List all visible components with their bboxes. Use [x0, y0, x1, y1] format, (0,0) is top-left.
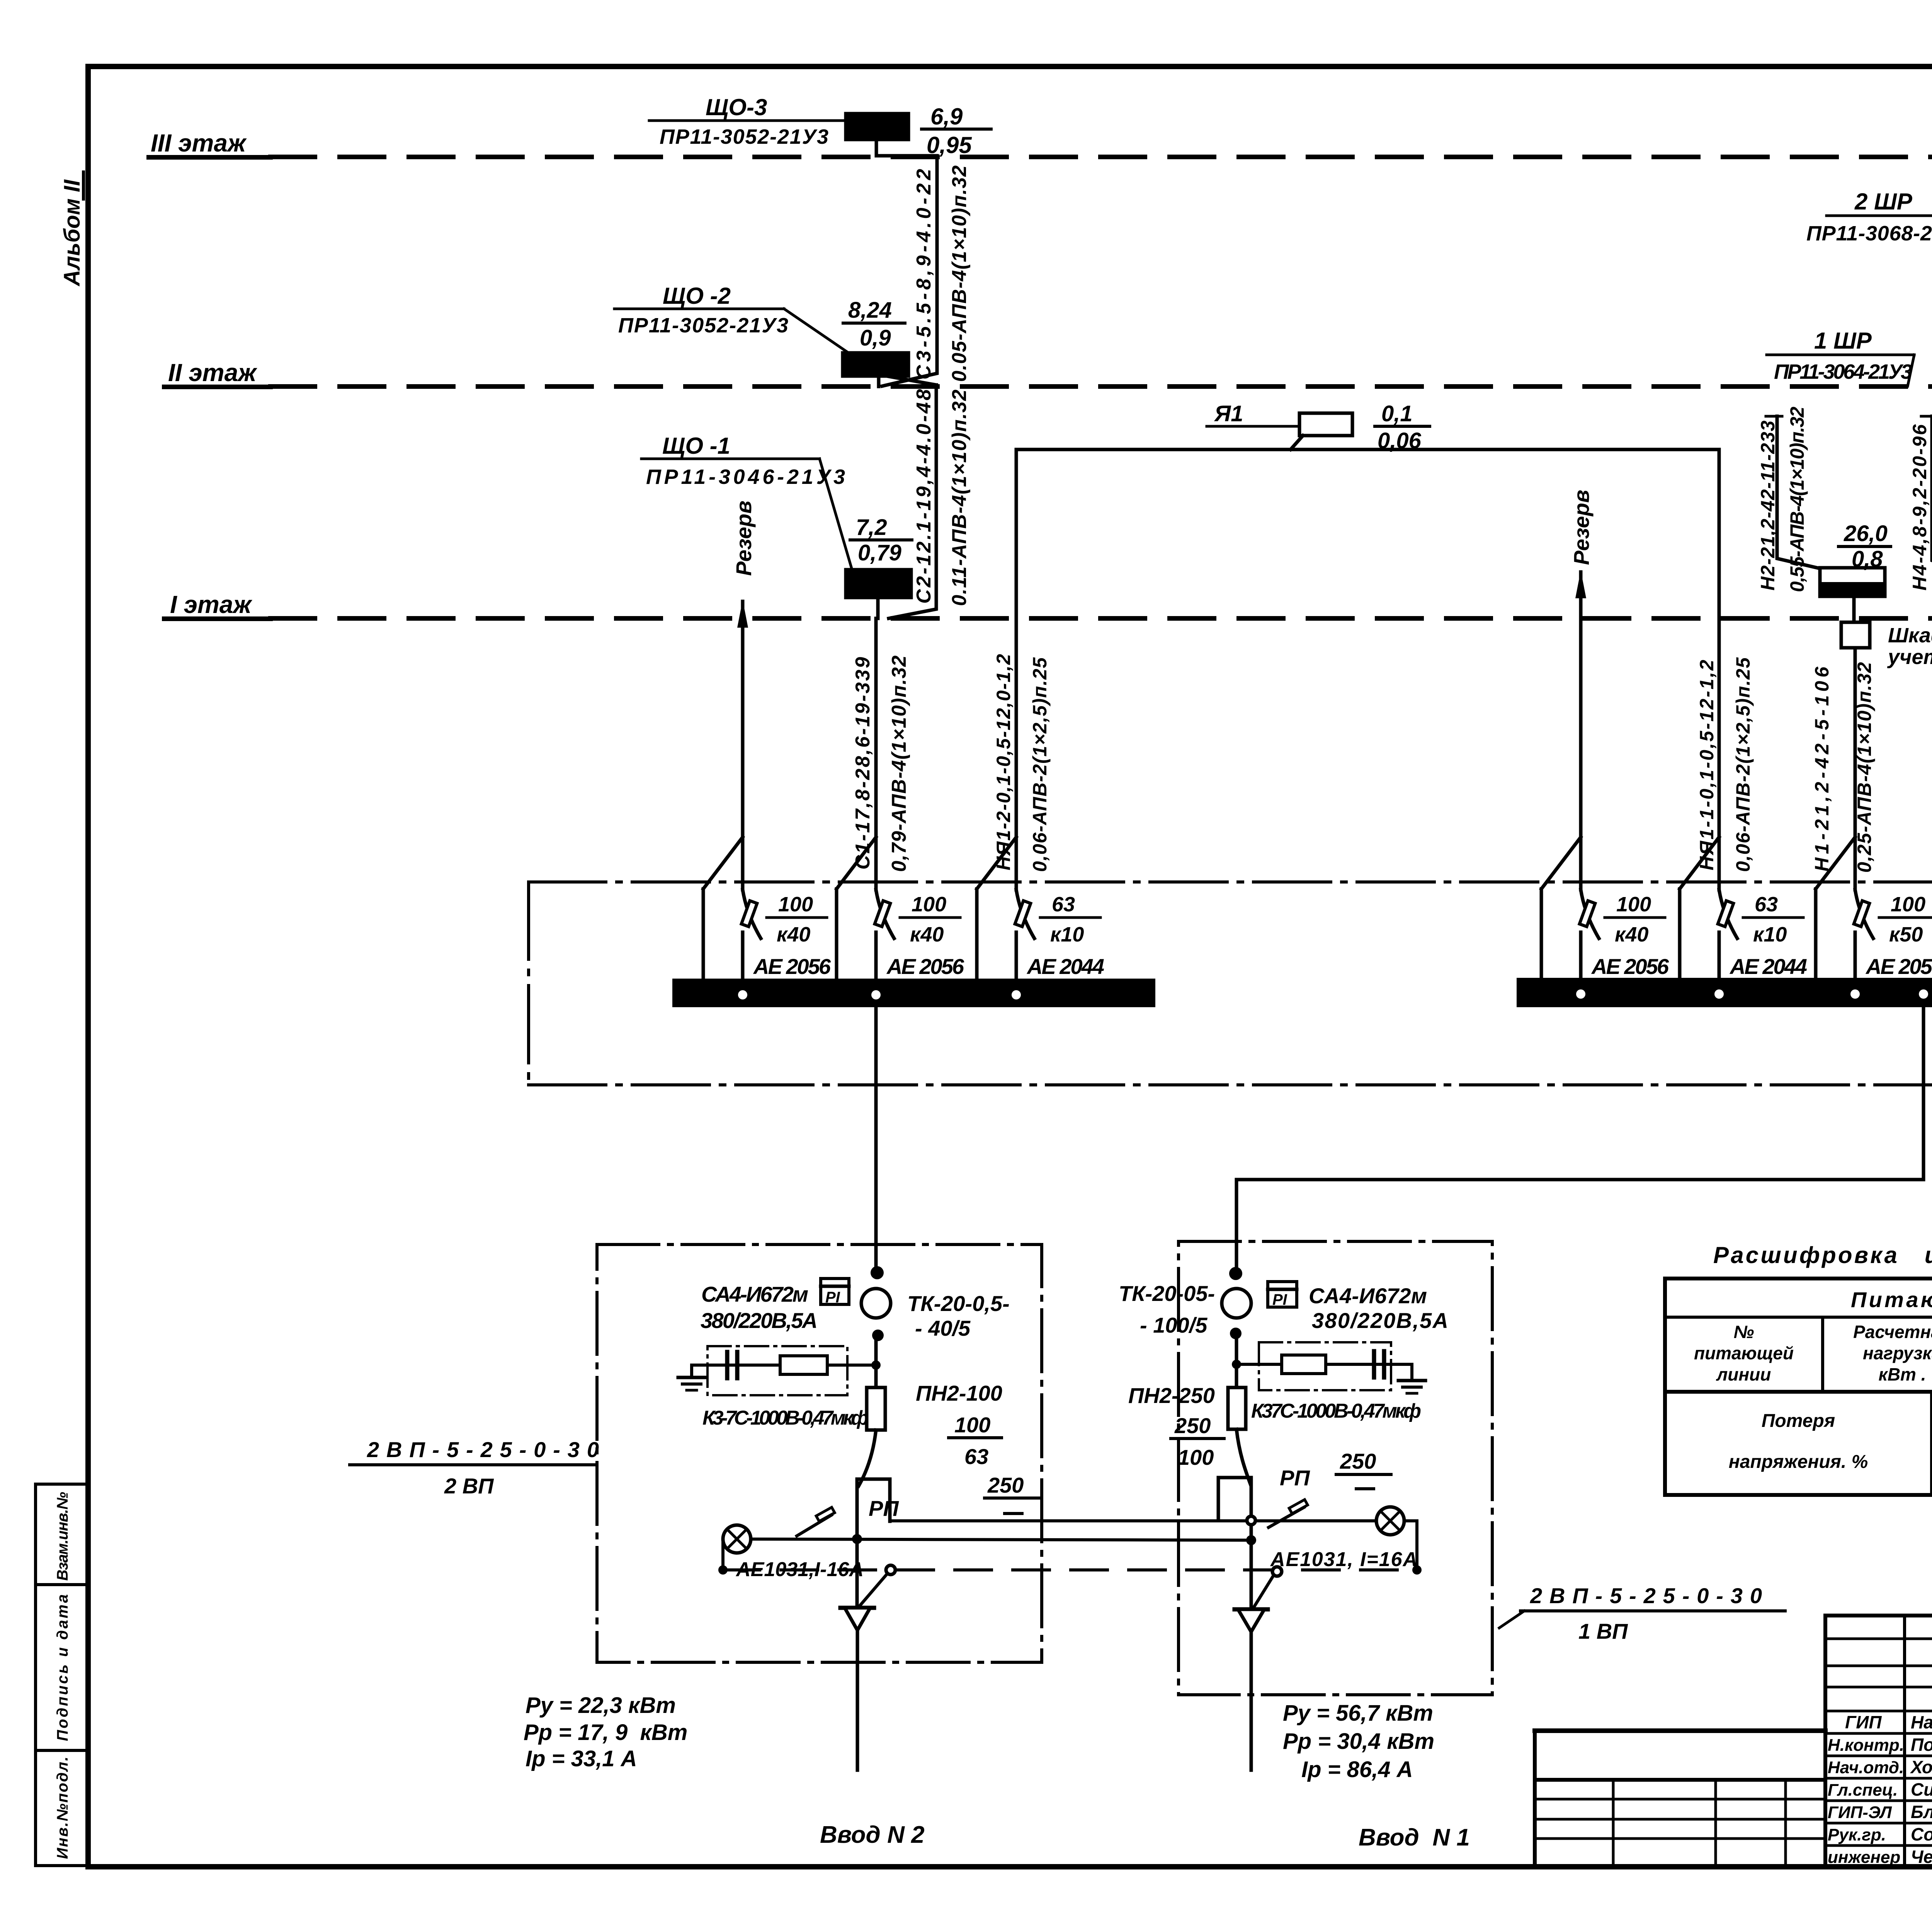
- svg-text:0,79: 0,79: [858, 540, 901, 565]
- junction box Ya1: [1299, 413, 1352, 436]
- svg-text:Сорокина: Сорокина: [1911, 1824, 1932, 1844]
- svg-text:Черкасова: Черкасова: [1911, 1847, 1932, 1867]
- svg-text:ПН2-250: ПН2-250: [1128, 1383, 1215, 1408]
- svg-text:Попова: Попова: [1911, 1735, 1932, 1755]
- busbar right: [1517, 978, 1932, 1007]
- wire SCHO-2 stub: [877, 376, 881, 386]
- svg-text:Резерв: Резерв: [731, 501, 756, 576]
- svg-text:250: 250: [1174, 1413, 1211, 1438]
- svg-text:ТК-20-0,5-: ТК-20-0,5-: [907, 1291, 1010, 1316]
- wire cap branch: [692, 1364, 876, 1367]
- svg-text:Ввод N 1: Ввод N 1: [1359, 1824, 1470, 1851]
- svg-text:Шкаф: Шкаф: [1888, 624, 1932, 647]
- svg-text:линии: линии: [1716, 1364, 1771, 1384]
- meter icon PI: [1268, 1282, 1297, 1307]
- svg-text:100: 100: [778, 893, 813, 916]
- svg-text:СА4-И672м: СА4-И672м: [1309, 1284, 1427, 1308]
- fuse PN2-250: [1228, 1388, 1246, 1429]
- svg-text:Подпись и дата: Подпись и дата: [54, 1594, 71, 1741]
- decode table frame: [1665, 1279, 1932, 1495]
- svg-text:Н.контр.: Н.контр.: [1828, 1736, 1904, 1755]
- breaker AE 2056 100/k40: [1541, 837, 1669, 981]
- svg-text:Я1: Я1: [1214, 401, 1243, 426]
- svg-text:100: 100: [1891, 893, 1925, 916]
- switch AE1031 input2: [797, 1515, 832, 1536]
- wire riser III-II: [882, 156, 937, 386]
- svg-text:ЩО -1: ЩО -1: [662, 433, 730, 459]
- svg-text:№: №: [1734, 1322, 1754, 1342]
- svg-text:PI: PI: [825, 1289, 840, 1306]
- svg-text:Назарова: Назарова: [1911, 1712, 1932, 1732]
- svg-text:К37С-1000В-0,47мкф: К37С-1000В-0,47мкф: [1251, 1400, 1421, 1422]
- floor II line: [270, 384, 1932, 389]
- svg-text:С1-17,8-28,6-19-339: С1-17,8-28,6-19-339: [852, 657, 874, 870]
- svg-text:к10: к10: [1753, 923, 1787, 946]
- busbar left: [672, 979, 1155, 1007]
- svg-text:Ру = 56,7 кВт: Ру = 56,7 кВт: [1283, 1701, 1433, 1726]
- wire main below RP: [855, 1521, 859, 1608]
- svg-text:2 ВП: 2 ВП: [444, 1474, 494, 1498]
- svg-text:Н4-4,8-9,2-20-96: Н4-4,8-9,2-20-96: [1909, 424, 1930, 591]
- svg-text:ГИП: ГИП: [1845, 1712, 1882, 1732]
- ground: [690, 1365, 693, 1377]
- panel SCHO-3: [846, 114, 908, 140]
- svg-text:Ру = 22,3 кВт: Ру = 22,3 кВт: [526, 1693, 676, 1718]
- breaker AE 2056 100/k40: [703, 837, 831, 982]
- wire riser II-I: [889, 385, 936, 618]
- svg-text:Нач.отд.: Нач.отд.: [1828, 1758, 1904, 1777]
- wire lamp line B: [723, 1539, 1251, 1540]
- svg-text:АЕ 2056: АЕ 2056: [1591, 954, 1669, 979]
- svg-text:Iр = 33,1 А: Iр = 33,1 А: [526, 1746, 637, 1771]
- node dot: [871, 1266, 884, 1279]
- svg-text:250: 250: [987, 1473, 1024, 1497]
- svg-text:питающей: питающей: [1694, 1343, 1794, 1363]
- svg-text:100: 100: [954, 1413, 990, 1437]
- svg-text:Резерв: Резерв: [1569, 490, 1594, 565]
- metering box input1: [1179, 1241, 1492, 1695]
- dash-dot box around cap: [1259, 1342, 1391, 1390]
- wire SCHO-1 down to breaker: [874, 618, 878, 839]
- svg-text:Хомяк: Хомяк: [1910, 1757, 1932, 1777]
- capacitor: [725, 1352, 730, 1378]
- svg-text:инженер: инженер: [1828, 1848, 1900, 1867]
- breaker AE 2044 63/k10: [1680, 837, 1807, 981]
- breaker AE 2044 63/k10: [977, 837, 1104, 982]
- svg-text:напряжения. %: напряжения. %: [1729, 1452, 1868, 1472]
- svg-text:Расшифровка цифровых и букве: Расшифровка цифровых и буквенных обознач…: [1713, 1242, 1932, 1268]
- svg-text:ЩО -2: ЩО -2: [663, 283, 731, 309]
- svg-text:100: 100: [1616, 893, 1651, 916]
- svg-text:к10: к10: [1050, 923, 1084, 946]
- svg-text:- 40/5: - 40/5: [915, 1316, 971, 1340]
- floor I line: [270, 616, 1932, 621]
- svg-text:Iр = 86,4 А: Iр = 86,4 А: [1301, 1757, 1413, 1782]
- svg-text:нагрузка: нагрузка: [1863, 1343, 1932, 1363]
- lamp input1: [1376, 1507, 1404, 1535]
- svg-text:380/220В,5А: 380/220В,5А: [701, 1308, 818, 1333]
- svg-text:РП: РП: [1280, 1466, 1310, 1490]
- wire Ya1 horizontal: [1016, 448, 1719, 451]
- fuse PN2-100: [867, 1388, 885, 1430]
- svg-text:учета: учета: [1887, 645, 1932, 669]
- svg-text:ПР11-3064-21У3: ПР11-3064-21У3: [1774, 360, 1912, 383]
- switch AE1031 input1: [1269, 1507, 1304, 1527]
- svg-text:7,2: 7,2: [856, 515, 887, 540]
- svg-text:0,1: 0,1: [1381, 401, 1413, 426]
- CT TK-20-0,5 circle: [861, 1289, 891, 1318]
- svg-text:250: 250: [1340, 1449, 1376, 1473]
- wire main line above fuse: [874, 1333, 878, 1388]
- wire main below RP: [1250, 1520, 1253, 1609]
- svg-text:Рр = 30,4 кВт: Рр = 30,4 кВт: [1283, 1729, 1434, 1754]
- wire Ya1 drop: [1291, 436, 1303, 449]
- svg-text:- 100/5: - 100/5: [1140, 1313, 1207, 1337]
- wire lamp1 drop: [1415, 1521, 1418, 1570]
- svg-text:II этаж: II этаж: [168, 359, 257, 386]
- wire Ya1 left down: [1015, 449, 1018, 839]
- svg-text:ЩО-3: ЩО-3: [706, 94, 767, 120]
- signature table: [1825, 1616, 1932, 1867]
- svg-text:0,9: 0,9: [860, 325, 891, 351]
- wire feed drop left to input2: [874, 1007, 878, 1274]
- node dot: [872, 1330, 884, 1341]
- svg-text:Рр = 17, 9 кВт: Рр = 17, 9 кВт: [524, 1720, 687, 1745]
- svg-text:АЕ 2044: АЕ 2044: [1026, 954, 1104, 979]
- svg-text:100: 100: [912, 893, 946, 916]
- node dot: [1229, 1267, 1242, 1280]
- svg-text:к40: к40: [777, 923, 810, 946]
- svg-text:АЕ1031, I=16А: АЕ1031, I=16А: [1270, 1548, 1417, 1571]
- entry arrow input2: [840, 1606, 874, 1610]
- metering box input2: [597, 1245, 1042, 1662]
- svg-text:АЕ 2044: АЕ 2044: [1729, 954, 1807, 979]
- floor III line: [270, 155, 1932, 159]
- svg-text:Взам.инв.№: Взам.инв.№: [54, 1492, 71, 1581]
- fuse in cap circuit: [780, 1356, 827, 1374]
- RP dash-dot boundary: [529, 880, 1932, 884]
- svg-text:63: 63: [1755, 893, 1778, 916]
- metering cabinet shkaf ucheta: [1852, 596, 1856, 622]
- svg-text:СА4-И672м: СА4-И672м: [701, 1282, 808, 1306]
- breaker AE 2056 100/k50: [1816, 837, 1932, 981]
- RP bracket input2: [857, 1479, 890, 1521]
- svg-text:0.11-АПВ-4(1×10)п.32: 0.11-АПВ-4(1×10)п.32: [948, 390, 971, 606]
- entry contact input1: [1272, 1567, 1282, 1576]
- svg-text:ПР11-3068-21У3: ПР11-3068-21У3: [1806, 222, 1932, 245]
- svg-text:Гл.спец.: Гл.спец.: [1828, 1781, 1898, 1800]
- svg-text:0,06-АПВ-2(1×2,5)п.25: 0,06-АПВ-2(1×2,5)п.25: [1732, 657, 1754, 872]
- switch blade RP input1: [1236, 1429, 1250, 1484]
- reserve arrow left: [741, 601, 745, 839]
- svg-text:0,55-АПВ-4(1×10)п.32: 0,55-АПВ-4(1×10)п.32: [1786, 407, 1808, 592]
- wire feed drop right: [1922, 1007, 1925, 1180]
- svg-text:26,0: 26,0: [1844, 521, 1888, 546]
- ground: [1410, 1364, 1413, 1381]
- panel SCHO-2: [843, 353, 908, 376]
- svg-text:Потеря: Потеря: [1762, 1411, 1835, 1431]
- node circle on input1: [1247, 1516, 1255, 1525]
- svg-text:ПР11-3052-21У3: ПР11-3052-21У3: [660, 125, 828, 148]
- switch blade RP input2: [859, 1430, 876, 1486]
- svg-text:1 ВП: 1 ВП: [1578, 1619, 1628, 1643]
- svg-text:6,9: 6,9: [930, 104, 963, 129]
- svg-text:РП: РП: [869, 1496, 899, 1520]
- svg-text:2 ШР: 2 ШР: [1854, 189, 1913, 215]
- svg-text:8,24: 8,24: [848, 298, 892, 323]
- svg-text:Рук.гр.: Рук.гр.: [1828, 1825, 1886, 1844]
- busbar junction dots: [738, 990, 747, 999]
- svg-text:0,8: 0,8: [1852, 546, 1883, 572]
- svg-text:НЯ1-2-0,1-0,5-12,0-1,2: НЯ1-2-0,1-0,5-12,0-1,2: [993, 654, 1014, 870]
- CT TK-20-05 circle: [1222, 1289, 1251, 1318]
- entry contact input2: [886, 1565, 895, 1575]
- RP bracket input1: [1218, 1478, 1251, 1520]
- wire SCHO-1 stub: [876, 598, 880, 618]
- svg-text:К3-7С-1000В-0,47мкф: К3-7С-1000В-0,47мкф: [702, 1407, 869, 1429]
- node dot: [1230, 1328, 1242, 1339]
- reserve arrow right: [1579, 572, 1583, 839]
- lamp input2: [723, 1525, 751, 1553]
- wire 1ShR down: [1854, 648, 1857, 839]
- wire Ya1 right down: [1718, 449, 1721, 839]
- svg-text:С2-12.1-19,4-4.0-48: С2-12.1-19,4-4.0-48: [913, 389, 935, 604]
- svg-text:Альбом II: Альбом II: [60, 179, 85, 287]
- svg-text:63: 63: [1052, 893, 1075, 916]
- svg-text:380/220В,5А: 380/220В,5А: [1312, 1308, 1448, 1333]
- panel SCHO-1: [846, 570, 911, 598]
- wire cap branch: [1236, 1363, 1412, 1366]
- svg-text:0,79-АПВ-4(1×10)п.32: 0,79-АПВ-4(1×10)п.32: [888, 655, 910, 872]
- svg-text:Блувштейн: Блувштейн: [1911, 1802, 1932, 1822]
- wire lamp2 drop: [721, 1539, 724, 1570]
- capacitor: [1372, 1351, 1376, 1377]
- wire cross connector: [1236, 1180, 1923, 1274]
- sidebar cell podpis: [36, 1585, 88, 1750]
- panel 1ShR: [1820, 568, 1885, 596]
- svg-text:кВт .: кВт .: [1879, 1364, 1926, 1384]
- svg-text:АЕ 2056: АЕ 2056: [1865, 954, 1932, 979]
- svg-text:ПР11-3052-21У3: ПР11-3052-21У3: [618, 314, 788, 337]
- svg-text:Ввод N 2: Ввод N 2: [820, 1822, 925, 1848]
- fuse in cap circuit: [1282, 1355, 1326, 1374]
- feeder N4 to 2ShR: [1921, 415, 1932, 418]
- dash-dot box around cap: [707, 1346, 847, 1395]
- svg-text:Расчетная: Расчетная: [1853, 1322, 1932, 1342]
- svg-text:АЕ 2056: АЕ 2056: [753, 954, 831, 979]
- svg-text:I этаж: I этаж: [170, 591, 252, 618]
- svg-text:63: 63: [964, 1444, 988, 1469]
- svg-text:1 ШР: 1 ШР: [1814, 328, 1872, 354]
- svg-text:к50: к50: [1889, 923, 1923, 946]
- svg-text:НЯ1-1-0,1-0,5-12-1,2: НЯ1-1-0,1-0,5-12-1,2: [1696, 660, 1718, 870]
- svg-text:к40: к40: [910, 923, 944, 946]
- svg-text:Н2-21,2-42-11-233: Н2-21,2-42-11-233: [1757, 421, 1779, 591]
- feeder N2 to 1ShR: [1766, 415, 1782, 418]
- svg-text:ТК-20-05-: ТК-20-05-: [1119, 1281, 1215, 1306]
- svg-text:PI: PI: [1272, 1291, 1287, 1308]
- svg-text:ПН2-100: ПН2-100: [916, 1381, 1002, 1405]
- svg-text:100: 100: [1178, 1445, 1214, 1469]
- meter icon PI: [821, 1279, 849, 1304]
- svg-text:ГИП-ЭЛ: ГИП-ЭЛ: [1828, 1803, 1892, 1822]
- entry arrow input1: [1235, 1607, 1268, 1612]
- wire main line above fuse: [1235, 1333, 1238, 1388]
- wire lamp line A: [890, 1519, 1417, 1522]
- title block small grid: [1535, 1728, 1825, 1733]
- svg-text:0,06-АПВ-2(1×2,5)п.25: 0,06-АПВ-2(1×2,5)п.25: [1029, 657, 1051, 872]
- sidebar cell inv: [36, 1750, 88, 1866]
- wire SCHO-3 stub: [876, 140, 937, 156]
- sidebar cell vzam: [36, 1484, 88, 1585]
- svg-text:Сизинцев: Сизинцев: [1911, 1779, 1932, 1800]
- svg-text:АЕ 2056: АЕ 2056: [886, 954, 964, 979]
- breaker AE 2056 100/k40: [837, 837, 964, 982]
- svg-text:к40: к40: [1615, 923, 1648, 946]
- svg-text:III этаж: III этаж: [151, 129, 247, 157]
- dashed PE line: [723, 1568, 1417, 1571]
- svg-text:0.05-АПВ-4(1×10)п.32: 0.05-АПВ-4(1×10)п.32: [948, 165, 971, 382]
